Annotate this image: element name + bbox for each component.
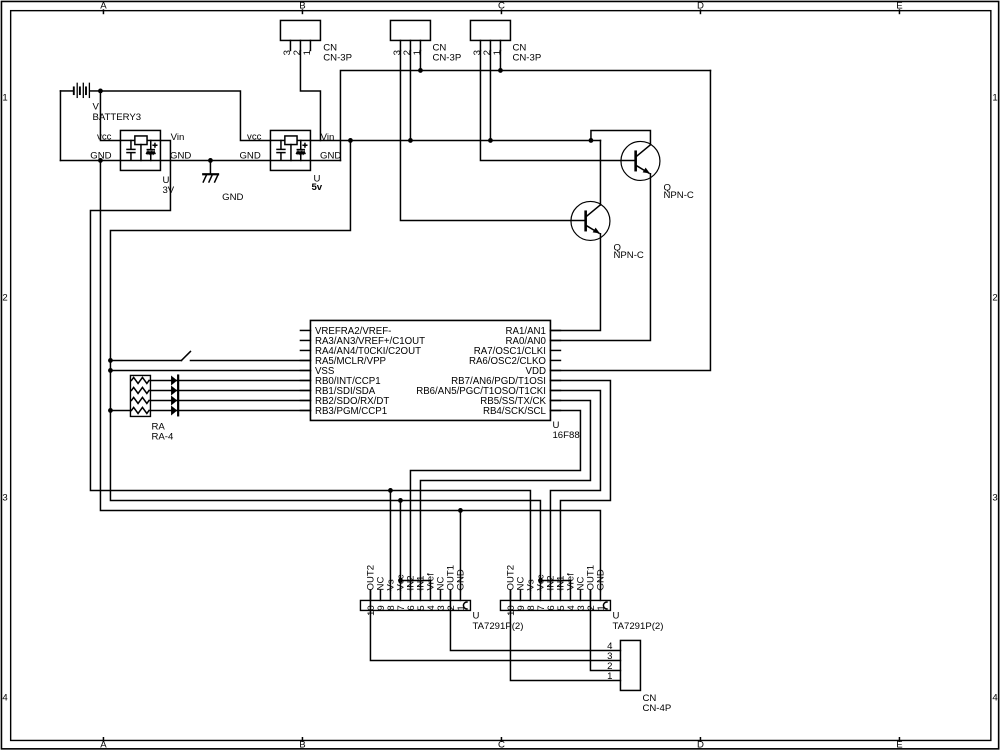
wire battery plus rail to 5V vcc: [100, 91, 270, 141]
diode D3: [171, 395, 177, 405]
wire Q2 emitter to RA1: [550, 234, 600, 331]
wire CN2 pin3 to Q2 base: [400, 50, 584, 220]
junction Vin rail x590: [589, 138, 594, 143]
svg-text:B: B: [299, 1, 305, 12]
svg-text:V: V: [92, 101, 99, 112]
svg-text:4: 4: [992, 692, 998, 703]
svg-text:vcc: vcc: [97, 132, 112, 143]
wire VDD loop: [550, 70, 710, 370]
wire TA1 Vcc drop: [399, 500, 401, 590]
svg-text:RA-4: RA-4: [151, 431, 174, 442]
wire RB3 row: [150, 409, 310, 411]
wire battery negative to GND rail: [59, 91, 61, 161]
svg-text:GND: GND: [222, 192, 243, 203]
svg-text:16F88: 16F88: [552, 430, 579, 441]
wire 3V Vin output down-left-down to Vs rail: [90, 140, 530, 590]
svg-text:GND: GND: [239, 150, 260, 161]
svg-text:E: E: [896, 1, 902, 12]
junction CN2 pin1: [418, 68, 423, 73]
wire TA1 OUT1 to CN pin4: [450, 590, 620, 650]
junction TA1 Vcc tie: [398, 578, 403, 583]
switch blade: [181, 351, 190, 360]
motor driver U TA7291P(2) #1: [360, 565, 523, 632]
svg-text:4: 4: [2, 692, 8, 703]
regulator U 3V: [90, 130, 191, 196]
diode cathode bar: [177, 374, 179, 416]
connector CN CN-4P: [607, 640, 671, 714]
svg-text:B: B: [299, 740, 305, 750]
wire Q1 emitter to RA0: [550, 174, 650, 341]
svg-text:A: A: [100, 1, 107, 12]
svg-text:C: C: [498, 740, 505, 750]
svg-text:RB4/SCK/SCL: RB4/SCK/SCL: [483, 406, 547, 417]
wire CN3 pin3 to Q1 base: [480, 50, 634, 160]
wire CN3 pin2 to Vin rail: [489, 50, 491, 140]
wire TA2 OUT2 to CN pin1: [510, 590, 620, 680]
junction TA1 Vs tap: [388, 488, 393, 493]
wire Q2 collector drop: [599, 140, 601, 205]
wire Vin to pullup and TA Vcc: [110, 140, 540, 590]
svg-text:TA7291P(2): TA7291P(2): [612, 621, 663, 632]
svg-text:GND: GND: [170, 150, 191, 161]
wire switch to RA5 pin: [190, 359, 310, 361]
wire TA1 Vs drop: [389, 490, 391, 590]
svg-text:3: 3: [992, 492, 997, 503]
wire TA1 GND drop: [459, 510, 461, 590]
wire GND rail y160: [60, 159, 340, 161]
junction VSS: [108, 368, 113, 373]
wire CN2 pin2 to Vin rail: [409, 50, 411, 140]
junction Vin rail x410: [408, 138, 413, 143]
wire GND rail top y70: [340, 70, 710, 160]
svg-text:E: E: [896, 740, 902, 750]
diode D4: [171, 405, 177, 415]
svg-text:CN-3P: CN-3P: [323, 52, 352, 63]
svg-text:TA7291P(2): TA7291P(2): [472, 621, 523, 632]
junction GND at 3V regulator: [98, 158, 103, 163]
connector CN CN-3P #2: [390, 20, 461, 63]
svg-text:A: A: [100, 740, 107, 750]
wire RB0 row: [150, 379, 310, 381]
wire TA1 OUT2 to CN pin3: [370, 590, 620, 660]
svg-text:CN-3P: CN-3P: [432, 52, 461, 63]
wire RB4 to TA1 IN2: [410, 410, 580, 590]
svg-text:1: 1: [2, 92, 7, 103]
wire TA2 Vcc-Vref tie: [540, 579, 570, 581]
wire TA2 OUT1 to CN pin2: [590, 590, 620, 670]
wire RA common: [110, 409, 130, 411]
battery V BATTERY3: [60, 83, 141, 123]
svg-text:CN-4P: CN-4P: [642, 703, 671, 714]
regulator U 5v: [239, 130, 341, 193]
junction Vin rail x350: [348, 138, 353, 143]
wire CN1 pin2 to 5V Vin: [300, 50, 320, 140]
svg-text:D: D: [697, 740, 704, 750]
svg-text:1: 1: [302, 50, 313, 55]
wire VSS row: [110, 369, 310, 371]
diode D1: [171, 375, 177, 385]
wire TA1 Vcc-Vref tie: [400, 579, 430, 581]
svg-text:1: 1: [456, 605, 467, 610]
wire RB2 row: [150, 399, 310, 401]
connector CN CN-3P #3: [470, 20, 541, 63]
junction Vin rail x490: [488, 138, 493, 143]
op-amp: microcontroller U 16F88: [300, 320, 579, 441]
junction TA1 Vcc tap: [398, 498, 403, 503]
wire GND from 3V down to low GND rail: [100, 160, 600, 590]
connector CN CN-3P #1: [280, 20, 352, 63]
svg-text:2: 2: [992, 292, 997, 303]
svg-text:RB3/PGM/CCP1: RB3/PGM/CCP1: [315, 406, 387, 417]
svg-text:CN-3P: CN-3P: [512, 52, 541, 63]
svg-text:1: 1: [412, 50, 423, 55]
svg-text:D: D: [697, 1, 704, 12]
svg-text:Vin: Vin: [171, 132, 185, 143]
svg-text:GND: GND: [596, 569, 607, 590]
wire CN2 pin1 to GND rail: [419, 50, 421, 70]
svg-text:1: 1: [596, 605, 607, 610]
resistor array RA RA-4: [130, 375, 174, 442]
svg-text:1: 1: [492, 50, 503, 55]
wire 5V Vin rail y140: [310, 139, 600, 141]
svg-text:1: 1: [607, 671, 612, 682]
svg-text:Vin: Vin: [321, 132, 335, 143]
svg-text:U: U: [472, 610, 479, 621]
wire RA5 to switch: [110, 359, 181, 361]
junction CN3 pin1: [498, 68, 503, 73]
junction RA common: [108, 408, 113, 413]
wire Q1 collector link: [591, 130, 651, 144]
wire RB1 row: [150, 389, 310, 391]
wire RB5 to TA1 IN1: [420, 400, 590, 590]
svg-text:1: 1: [992, 92, 997, 103]
junction TA1 GND tap: [458, 508, 463, 513]
wire CN3 pin1 to GND rail: [499, 50, 501, 70]
wire RB6 to TA2 IN2: [550, 390, 600, 590]
svg-text:NPN-C: NPN-C: [613, 250, 643, 261]
svg-text:U: U: [612, 610, 619, 621]
svg-text:GND: GND: [320, 150, 341, 161]
svg-text:2: 2: [2, 292, 7, 303]
svg-text:GND: GND: [456, 569, 467, 590]
wire battery plus down to 3V vcc: [100, 91, 120, 141]
svg-text:NPN-C: NPN-C: [663, 190, 693, 201]
svg-text:3: 3: [2, 492, 7, 503]
junction battery plus: [98, 89, 103, 94]
transistor Q1 NPN-C: [621, 141, 694, 201]
ground symbol: [202, 158, 243, 203]
svg-text:C: C: [498, 1, 505, 12]
motor driver U TA7291P(2) #2: [500, 565, 663, 632]
svg-text:3V: 3V: [162, 185, 174, 196]
svg-text:5v: 5v: [311, 182, 322, 193]
wire RB7 to TA2 IN1: [550, 380, 610, 590]
diode D2: [171, 385, 177, 395]
svg-text:vcc: vcc: [247, 132, 262, 143]
junction TA2 Vcc tie: [538, 578, 543, 583]
transistor Q2 NPN-C: [571, 201, 644, 261]
junction RA5 pullup: [108, 358, 113, 363]
